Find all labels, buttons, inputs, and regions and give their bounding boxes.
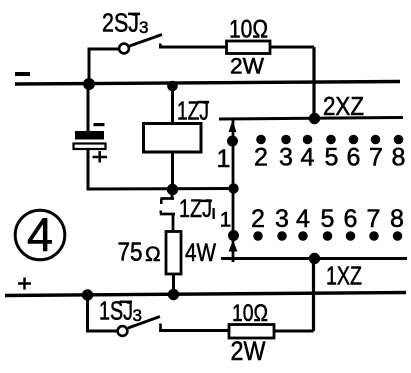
svg-text:1: 1 <box>217 145 231 173</box>
svg-text:3: 3 <box>275 205 289 233</box>
svg-text:Ω: Ω <box>145 243 161 266</box>
svg-text:1XZ: 1XZ <box>326 261 362 291</box>
svg-text:3: 3 <box>133 306 142 325</box>
svg-text:4: 4 <box>301 144 315 172</box>
svg-text:2: 2 <box>251 205 265 233</box>
svg-text:8: 8 <box>392 144 406 172</box>
svg-text:2SJ: 2SJ <box>102 8 139 38</box>
svg-text:3: 3 <box>139 18 148 37</box>
svg-text:4W: 4W <box>185 239 216 267</box>
svg-text:5: 5 <box>325 144 339 172</box>
svg-text:3: 3 <box>279 144 293 172</box>
svg-text:10Ω: 10Ω <box>232 300 268 327</box>
svg-text:4: 4 <box>27 208 53 261</box>
svg-text:7: 7 <box>367 205 381 233</box>
svg-text:6: 6 <box>344 205 358 233</box>
svg-text:4: 4 <box>296 205 310 233</box>
svg-text:2W: 2W <box>230 54 264 79</box>
svg-text:8: 8 <box>390 205 404 233</box>
svg-text:2W: 2W <box>231 336 266 366</box>
svg-text:5: 5 <box>321 205 335 233</box>
svg-text:1ZJ: 1ZJ <box>179 195 212 223</box>
svg-text:75: 75 <box>118 237 143 267</box>
svg-text:2: 2 <box>254 144 268 172</box>
svg-text:1SJ: 1SJ <box>99 296 133 326</box>
svg-text:1: 1 <box>220 209 232 232</box>
svg-text:10Ω: 10Ω <box>229 16 268 44</box>
svg-text:7: 7 <box>369 144 383 172</box>
svg-text:1ZJ: 1ZJ <box>177 96 209 126</box>
svg-text:6: 6 <box>347 144 361 172</box>
svg-text:2XZ: 2XZ <box>323 91 364 121</box>
